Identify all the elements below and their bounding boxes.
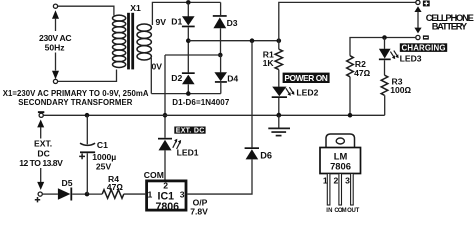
svg-text:0V: 0V xyxy=(152,62,163,72)
svg-text:9V: 9V xyxy=(156,17,167,27)
svg-text:2: 2 xyxy=(334,175,339,185)
svg-text:X1=230V AC PRIMARY TO 0-9V, 25: X1=230V AC PRIMARY TO 0-9V, 250mA xyxy=(3,89,149,98)
capacitor C1 xyxy=(80,143,95,145)
arrow down at AC bottom terminal xyxy=(52,71,59,79)
resistor R3 xyxy=(381,75,388,95)
svg-text:1: 1 xyxy=(148,190,153,200)
svg-text:D3: D3 xyxy=(227,18,238,28)
wire: midpoint to D4 anode xyxy=(220,55,222,72)
wire: D5 to R4 xyxy=(72,193,102,195)
svg-text:EXT.: EXT. xyxy=(34,139,52,149)
svg-text:1K: 1K xyxy=(263,58,275,68)
svg-text:D4: D4 xyxy=(227,73,238,83)
plus sign at EXT DC terminal xyxy=(35,197,40,202)
svg-text:X1: X1 xyxy=(130,3,141,13)
svg-text:CHARGING: CHARGING xyxy=(402,44,446,53)
minus sign at EXT DC terminal xyxy=(38,111,44,113)
svg-text:47Ω: 47Ω xyxy=(107,182,124,192)
wire: battery minus rail to R2 xyxy=(350,38,416,56)
wire: LED3 top lead xyxy=(384,38,386,49)
svg-text:D6: D6 xyxy=(260,151,272,161)
svg-text:IN: IN xyxy=(326,208,332,214)
wire: plus terminal to D5 xyxy=(42,193,58,195)
wire: R1 top lead xyxy=(278,41,280,50)
terminal: AC live xyxy=(53,4,57,8)
node: bridge positive to D6 junction xyxy=(250,38,255,43)
wire: EXT DC stem lower xyxy=(40,168,42,183)
arrow down battery xyxy=(414,28,421,34)
wire: bridge positive rail to R1 riser xyxy=(188,40,278,42)
wire: top AC terminal to transformer primary top xyxy=(56,6,114,15)
wire: common rail xyxy=(44,114,385,116)
svg-text:DC: DC xyxy=(37,148,49,158)
wire: bottom AC terminal to primary bottom xyxy=(58,70,117,82)
arrow up at EXT DC minus xyxy=(37,120,44,128)
wire: LED2 to ground rail xyxy=(278,98,280,115)
LM7806 pin 3 xyxy=(351,174,354,206)
node: common rail junction at LED1 branch xyxy=(163,113,168,118)
ground xyxy=(278,115,280,128)
node: D1 top junction xyxy=(186,0,191,5)
svg-text:7806: 7806 xyxy=(156,201,180,213)
svg-text:LED3: LED3 xyxy=(400,53,422,63)
diode D2 xyxy=(182,72,195,74)
resistor R2 xyxy=(347,56,354,77)
svg-text:2: 2 xyxy=(163,181,168,191)
svg-text:3: 3 xyxy=(345,175,350,185)
diode D3 xyxy=(213,15,227,17)
wire: D1 cathode down through junction to D2 xyxy=(187,27,189,72)
wire: D3 top rail stub xyxy=(220,2,222,15)
wire: C1 bottom lead xyxy=(86,153,88,194)
LED1 light arrows xyxy=(173,141,180,149)
resistor R4 xyxy=(102,190,124,199)
wire: 0V midpoint link xyxy=(165,54,220,56)
diode D6 xyxy=(245,147,259,149)
LED3 light arrows xyxy=(390,51,397,58)
svg-text:1: 1 xyxy=(323,175,328,185)
svg-text:EXT. DC: EXT. DC xyxy=(176,128,205,135)
svg-text:D1: D1 xyxy=(171,16,182,26)
wire: riser to top-right rail xyxy=(279,2,418,40)
transformer X1 secondary winding xyxy=(137,24,151,60)
LM7806 pin 1 xyxy=(327,174,330,206)
svg-text:COM: COM xyxy=(334,208,346,214)
LED2 light arrows xyxy=(286,87,293,94)
transformer X1 core xyxy=(127,13,130,70)
svg-text:7.8V: 7.8V xyxy=(190,207,208,215)
node: 0V midpoint junction xyxy=(218,53,223,58)
node: D2 bottom junction xyxy=(186,91,191,96)
transformer X1 primary winding xyxy=(113,15,126,67)
wire: LED3 to R3 xyxy=(384,60,386,75)
wire: 9V tap riser and top-left rail to D1,D3 xyxy=(152,2,220,25)
svg-text:50Hz: 50Hz xyxy=(45,42,65,52)
diode D1 xyxy=(182,16,195,25)
wire: R1 to LED2 xyxy=(278,70,280,87)
svg-text:OUT: OUT xyxy=(347,208,360,214)
plus sign at C1 xyxy=(79,154,85,160)
svg-text:100Ω: 100Ω xyxy=(390,85,411,95)
LM7806 package hole xyxy=(336,138,344,144)
wire: LED1 to IC COM xyxy=(164,150,166,179)
wire: D4 cathode to bottom rail xyxy=(220,83,222,94)
LED2 xyxy=(272,87,286,97)
node: LED3 junction xyxy=(382,35,387,40)
minus box at battery xyxy=(423,35,429,39)
wire: AC arrow stem lower xyxy=(55,53,57,71)
wire: D2 anode to bottom rail xyxy=(187,84,189,93)
LED1 xyxy=(158,138,172,140)
svg-text:POWER ON: POWER ON xyxy=(284,73,328,83)
LED3 xyxy=(379,49,391,59)
wire: D6 anode to IC1 output xyxy=(188,159,253,194)
arrow up at AC top terminal xyxy=(52,10,59,19)
wire: bridge bottom rail xyxy=(151,93,221,95)
svg-text:12 TO 13.8V: 12 TO 13.8V xyxy=(19,158,63,168)
terminal: EXT DC minus xyxy=(39,113,43,117)
svg-text:LED2: LED2 xyxy=(296,88,318,98)
svg-text:D2: D2 xyxy=(171,73,182,83)
label EXT. DC on LED1 xyxy=(174,127,205,134)
wire: common link from 0V midpoint down to IC COM xyxy=(164,55,166,138)
diode D5 xyxy=(58,188,71,200)
svg-text:25V: 25V xyxy=(96,162,112,172)
svg-text:C1: C1 xyxy=(97,140,108,150)
svg-text:3: 3 xyxy=(180,190,185,200)
node: bridge positive junction xyxy=(186,38,191,43)
terminal: battery plus xyxy=(416,0,420,4)
wire: 0V tap drop to bridge bottom rail xyxy=(150,58,152,94)
wire: R4 to IC1 pin 1 xyxy=(124,193,146,195)
svg-text:SECONDARY TRANSFORMER: SECONDARY TRANSFORMER xyxy=(18,98,133,107)
svg-text:LED1: LED1 xyxy=(177,147,199,157)
node: C1 top junction xyxy=(85,113,90,118)
node: C1 bottom junction xyxy=(85,192,90,197)
resistor R1 xyxy=(275,49,282,69)
node: ground junction xyxy=(276,113,281,118)
wire: EXT DC stem upper xyxy=(40,127,42,139)
wire: D3 anode down to midpoint xyxy=(220,28,222,55)
svg-text:1000µ: 1000µ xyxy=(92,152,116,162)
LM7806 pin 2 xyxy=(339,174,342,206)
node: R1 junction xyxy=(277,38,282,43)
svg-text:BATTERY: BATTERY xyxy=(432,20,468,31)
arrow down at EXT DC plus xyxy=(37,182,44,190)
IC1 7806 xyxy=(147,181,186,210)
wire: D6 branch down xyxy=(251,41,253,148)
LM7806 package body xyxy=(320,148,361,174)
label POWER ON xyxy=(283,73,330,83)
terminal: battery minus xyxy=(416,35,420,39)
plus box at battery xyxy=(423,1,430,7)
svg-text:D1-D6=1N4007: D1-D6=1N4007 xyxy=(172,98,230,107)
node: R2 bottom junction xyxy=(348,113,353,118)
svg-text:47Ω: 47Ω xyxy=(354,68,371,78)
wire: C1 top lead xyxy=(86,115,88,144)
wire: R3 bottom to common rail xyxy=(384,95,386,115)
arrow up battery xyxy=(414,6,421,12)
svg-text:7806: 7806 xyxy=(330,161,351,172)
wire: battery span xyxy=(417,12,419,29)
wire: D1 branch from top rail xyxy=(187,2,189,16)
diode D4 xyxy=(214,72,227,81)
wire: AC arrow stem upper xyxy=(55,18,57,31)
wire: R2 bottom to common rail xyxy=(349,77,351,115)
svg-text:COM: COM xyxy=(144,170,164,180)
terminal: AC neutral xyxy=(53,79,57,83)
LM7806 package tab xyxy=(326,134,355,148)
terminal: EXT DC plus xyxy=(38,192,42,196)
label CHARGING xyxy=(400,43,447,52)
svg-text:D5: D5 xyxy=(62,178,73,188)
